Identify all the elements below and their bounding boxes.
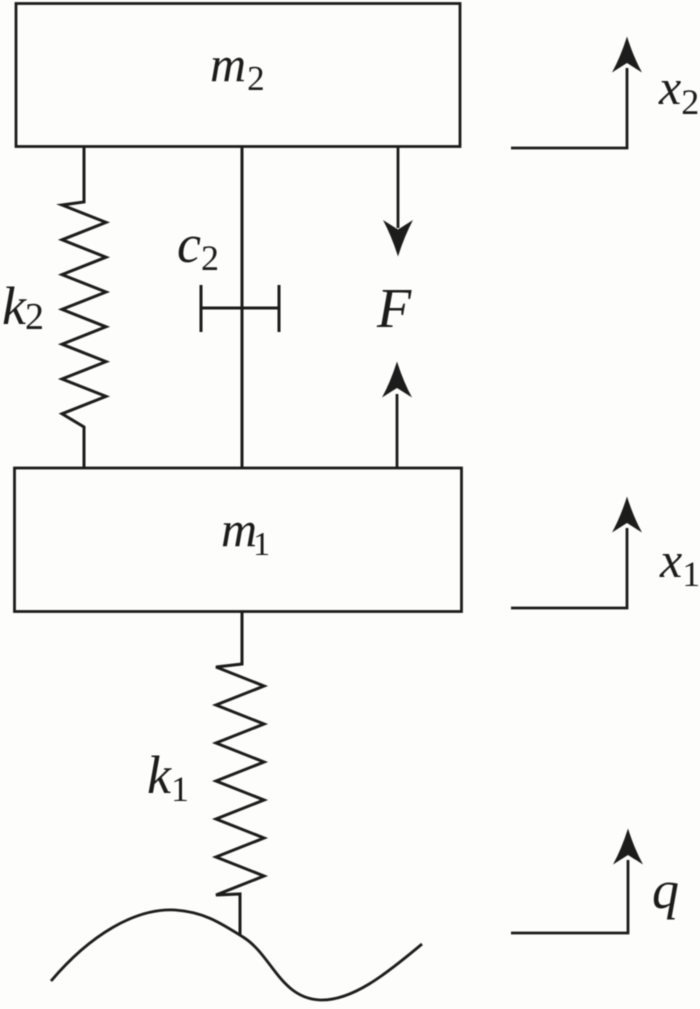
damper c2 cross bar — [201, 307, 279, 310]
force F up arrow shaft — [396, 394, 399, 468]
svg-text:k1: k1 — [147, 745, 189, 809]
spring k1 — [216, 612, 264, 936]
svg-text:m1: m1 — [221, 501, 270, 563]
mass m1 box — [15, 468, 462, 612]
x1 axis baseline — [511, 528, 627, 608]
F down arrowhead — [383, 220, 413, 257]
svg-text:c2: c2 — [177, 214, 219, 278]
force F down arrow shaft — [397, 147, 400, 228]
x1 arrowhead — [612, 497, 642, 533]
damper c2 left tick — [200, 285, 203, 332]
ground surface wavy line — [51, 910, 422, 1000]
svg-text:x2: x2 — [658, 59, 699, 122]
damper c2 right tick — [278, 285, 281, 332]
q arrowhead — [613, 829, 643, 865]
svg-text:q: q — [652, 860, 679, 920]
svg-text:m2: m2 — [210, 36, 265, 98]
x2 arrowhead — [612, 37, 642, 73]
F up arrowhead — [382, 362, 412, 398]
svg-text:x1: x1 — [659, 532, 700, 594]
spring k2 — [62, 147, 106, 468]
svg-text:F: F — [376, 278, 412, 340]
mass m2 box — [16, 4, 460, 147]
x2 axis baseline — [511, 68, 627, 148]
damper c2 rod (center line) — [241, 146, 244, 468]
svg-text:k2: k2 — [2, 276, 44, 338]
q axis baseline — [511, 860, 628, 933]
